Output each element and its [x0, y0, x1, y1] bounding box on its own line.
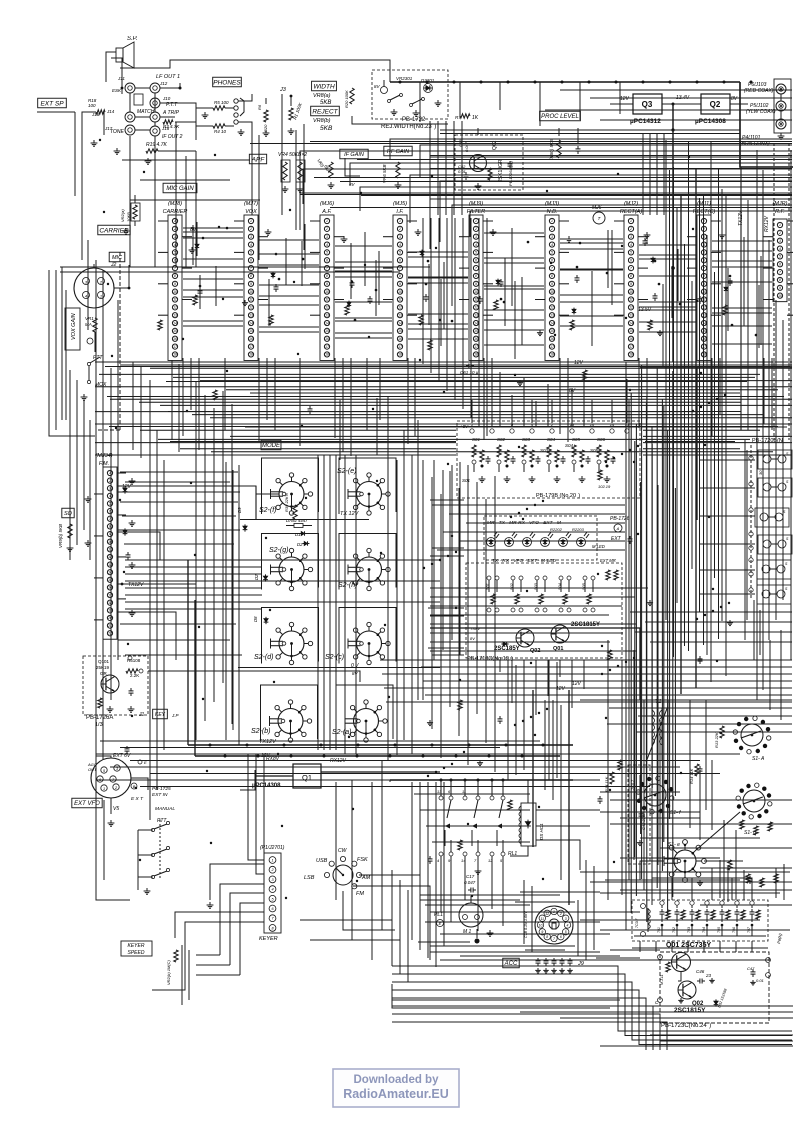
- ground: [202, 112, 209, 118]
- wire: [122, 159, 250, 161]
- wire: [175, 121, 196, 123]
- wire: [140, 179, 230, 181]
- wire: [417, 420, 419, 700]
- wire: [700, 867, 792, 869]
- node: [426, 81, 429, 84]
- filter cap T01: [657, 901, 670, 936]
- wire: [95, 442, 456, 444]
- wire: [357, 159, 792, 161]
- wire: [552, 700, 554, 800]
- svg-text:S2-(e): S2-(e): [337, 468, 356, 475]
- node: [182, 338, 184, 340]
- wire: [430, 218, 432, 373]
- wire: [88, 366, 90, 380]
- svg-text:2SC1815Y: 2SC1815Y: [571, 622, 600, 628]
- wire: [696, 812, 740, 850]
- node: [209, 744, 212, 747]
- rotary switch S2-(c): [348, 622, 390, 664]
- node: [384, 624, 386, 626]
- wire: [259, 331, 319, 333]
- wire: [605, 879, 740, 881]
- svg-text:18: 18: [629, 353, 633, 357]
- svg-text:VR6 5KB: VR6 5KB: [382, 164, 387, 183]
- wire: [442, 470, 444, 650]
- wire: [183, 227, 243, 229]
- svg-text:10: 10: [249, 290, 253, 294]
- wire: [700, 593, 755, 595]
- wire: [359, 875, 420, 950]
- wire: [433, 460, 435, 660]
- wire: [591, 271, 593, 346]
- node: [281, 825, 283, 827]
- svg-text:0 V: 0 V: [351, 663, 359, 669]
- ground: [427, 720, 433, 726]
- svg-text:VR8(a): VR8(a): [313, 93, 331, 99]
- wire: [258, 236, 268, 238]
- wire: [181, 945, 183, 1005]
- svg-text:13: 13: [702, 313, 706, 317]
- wire: [712, 266, 772, 268]
- wire: [585, 860, 587, 960]
- node: [425, 283, 428, 286]
- coax P5/J102: [776, 101, 786, 111]
- resistor: [774, 874, 778, 883]
- node: [750, 81, 753, 84]
- svg-text:J17: J17: [104, 126, 113, 131]
- wire: [210, 864, 264, 900]
- wire: [556, 662, 558, 778]
- capacitor: [536, 958, 541, 966]
- node: [431, 744, 434, 747]
- wire: [423, 680, 792, 682]
- wire: [96, 753, 740, 755]
- wire: [391, 870, 393, 966]
- connector MJ6: [592, 205, 605, 224]
- wire: [140, 786, 650, 788]
- wire: [399, 880, 401, 974]
- svg-text:7: 7: [630, 266, 632, 270]
- resistor: [458, 840, 462, 850]
- wire: [175, 122, 177, 267]
- wire: [762, 170, 764, 690]
- pot VR2: [131, 203, 140, 221]
- wire: [634, 935, 766, 937]
- wire thick: [255, 486, 257, 519]
- junction: [749, 558, 753, 562]
- svg-text:(MJ2): (MJ2): [624, 201, 638, 207]
- wire: [392, 990, 792, 1045]
- svg-text:7: 7: [779, 270, 781, 274]
- wire: [82, 112, 96, 190]
- wire: [580, 699, 792, 701]
- node: [680, 772, 682, 774]
- resistor: [458, 700, 462, 710]
- wire: [460, 955, 620, 957]
- node: [293, 281, 295, 283]
- filter cap T04: [702, 901, 715, 936]
- wire: [639, 244, 696, 246]
- wire: [245, 426, 787, 428]
- node: [621, 453, 623, 455]
- wire: [478, 218, 480, 427]
- ground: [475, 183, 482, 189]
- svg-text:PB-1722: PB-1722: [402, 117, 426, 123]
- wire: [69, 516, 71, 520]
- wire: [680, 194, 682, 694]
- svg-text:S02: S02: [510, 582, 514, 590]
- wire: [607, 247, 609, 288]
- wire: [183, 237, 243, 239]
- wire: [560, 301, 623, 303]
- connector strip (MJ7) VOX: [244, 215, 258, 360]
- phone jack J3: [234, 98, 244, 124]
- svg-text:13: 13: [173, 313, 177, 317]
- connector MIC J2: [74, 264, 114, 308]
- resistor: [488, 168, 492, 180]
- wire: [255, 775, 293, 777]
- svg-text:F.M.: F.M.: [99, 461, 109, 467]
- wire: [719, 358, 721, 414]
- wire: [484, 344, 544, 346]
- svg-text:4: 4: [250, 243, 252, 247]
- wire: [350, 163, 792, 185]
- svg-text:16: 16: [629, 337, 633, 341]
- svg-text:14: 14: [249, 321, 253, 325]
- wire: [134, 195, 136, 203]
- wire: [454, 218, 456, 400]
- wire: [390, 139, 792, 159]
- svg-text:8V: 8V: [470, 636, 475, 641]
- jack J13 ATRIP: [150, 110, 180, 122]
- wire: [100, 740, 540, 742]
- pot VR5: [329, 162, 333, 178]
- wire: [621, 660, 623, 895]
- coil 7C07: [631, 775, 640, 800]
- capacitor: [129, 688, 134, 696]
- wire: [600, 929, 790, 931]
- capacitor: [544, 958, 549, 966]
- svg-text:S01: S01: [486, 583, 490, 590]
- node: [688, 156, 690, 158]
- capacitor: [308, 406, 313, 414]
- label PHONES: [213, 77, 242, 87]
- capacitor: [653, 293, 658, 301]
- switch S04: [547, 437, 566, 482]
- wire: [780, 630, 782, 720]
- wire: [669, 447, 671, 819]
- wire: [499, 660, 501, 672]
- node: [708, 516, 710, 518]
- pot VR4b: [296, 160, 305, 182]
- wire: [632, 947, 768, 949]
- wire: [117, 612, 176, 660]
- node: [302, 258, 305, 261]
- node: [637, 533, 639, 535]
- node: [431, 563, 433, 565]
- wire: [700, 515, 755, 517]
- node: [269, 609, 271, 611]
- wire: [355, 455, 357, 754]
- switch: [151, 821, 169, 831]
- transistor Q02 2SC1815Y: [678, 981, 696, 999]
- svg-text:USB: USB: [316, 858, 328, 864]
- wire: [640, 482, 642, 834]
- wire dashed: [96, 429, 120, 431]
- switch routing box S2-(e): [339, 458, 396, 514]
- wire: [224, 358, 226, 430]
- wire: [430, 951, 600, 953]
- node: [214, 154, 216, 156]
- svg-text:17: 17: [325, 345, 329, 349]
- wire: [663, 406, 665, 842]
- wire: [638, 267, 648, 269]
- wire: [560, 294, 623, 296]
- node: [621, 245, 623, 247]
- wire: [99, 373, 760, 375]
- svg-text:10: 10: [173, 290, 177, 294]
- svg-text:MANUAL: MANUAL: [155, 806, 175, 812]
- wire: [430, 650, 637, 652]
- jack J18: [150, 126, 170, 136]
- wire: [751, 941, 753, 952]
- node: [731, 324, 734, 327]
- svg-text:10: 10: [550, 290, 554, 294]
- switch S05: [572, 437, 591, 482]
- ground: [108, 820, 115, 826]
- capacitor 0.047: [643, 234, 650, 246]
- svg-text:2: 2: [249, 227, 252, 231]
- node: [534, 81, 537, 84]
- ground: [697, 880, 703, 886]
- wire: [300, 151, 792, 197]
- svg-text:12: 12: [550, 306, 554, 310]
- node: [605, 461, 607, 463]
- wire: [577, 900, 579, 956]
- svg-text:PTT: PTT: [157, 818, 167, 824]
- svg-text:8: 8: [399, 274, 401, 278]
- node: [447, 463, 449, 465]
- node: [679, 303, 682, 306]
- wire: [610, 823, 792, 825]
- wire: [711, 760, 713, 830]
- pot VR4a: [281, 160, 290, 182]
- resistor: [570, 320, 574, 330]
- diode D2301: [421, 78, 435, 93]
- wire: [451, 465, 453, 640]
- wire: [700, 543, 755, 545]
- wire: [196, 954, 220, 956]
- wire: [435, 782, 437, 967]
- ground: [657, 330, 663, 336]
- wire: [150, 367, 792, 369]
- wire: [301, 241, 303, 286]
- wire: [535, 660, 537, 715]
- svg-text:17: 17: [550, 345, 554, 349]
- switch PTT: [87, 355, 103, 366]
- node: [708, 402, 710, 404]
- svg-text:4: 4: [779, 247, 781, 251]
- wire: [263, 754, 265, 888]
- svg-text:1: 1: [250, 219, 252, 223]
- wire: [152, 922, 264, 990]
- filter cap T02: [672, 901, 685, 936]
- svg-text:2: 2: [474, 227, 477, 231]
- svg-text:12: 12: [325, 306, 329, 310]
- wire: [171, 360, 173, 440]
- capacitor C42 270P: [639, 811, 647, 830]
- wire: [266, 358, 268, 420]
- node: [542, 744, 545, 747]
- pin: [658, 998, 663, 1003]
- wire: [620, 889, 792, 891]
- transistor Q01: [551, 625, 569, 643]
- wire: [440, 780, 442, 796]
- wire: [430, 155, 792, 157]
- jack J12: [150, 81, 168, 93]
- wire: [383, 236, 393, 238]
- pin: [550, 429, 554, 433]
- wire: [674, 488, 676, 796]
- wire: [300, 919, 392, 921]
- svg-text:11: 11: [629, 298, 633, 302]
- svg-text:4: 4: [551, 243, 553, 247]
- svg-text:5KB: 5KB: [320, 100, 331, 106]
- wire: [163, 460, 165, 750]
- node: [475, 939, 480, 944]
- wire: [425, 694, 792, 696]
- wire: [499, 372, 501, 426]
- switch routing box S2-(f): [262, 458, 319, 514]
- wire: [502, 780, 504, 796]
- svg-text:R19 4.7K: R19 4.7K: [146, 142, 168, 148]
- node: [394, 744, 397, 747]
- node: [617, 173, 619, 175]
- wire: [699, 198, 701, 612]
- wire: [420, 894, 560, 896]
- switch routing box S2-(g): [262, 534, 319, 590]
- ground: [207, 902, 214, 908]
- wire: [117, 472, 126, 474]
- node: [111, 355, 113, 357]
- svg-text:11: 11: [462, 789, 466, 794]
- node: [443, 767, 445, 769]
- node: [716, 660, 718, 662]
- pin: [139, 669, 143, 673]
- wire: [559, 283, 569, 285]
- wire: [428, 647, 464, 649]
- pin: [530, 429, 534, 433]
- svg-text:I.F.: I.F.: [396, 209, 403, 215]
- svg-text:5: 5: [551, 251, 553, 255]
- wire: [525, 949, 565, 951]
- wire: [196, 107, 213, 109]
- svg-text:J3: J3: [279, 87, 287, 93]
- svg-text:S03: S03: [534, 582, 538, 590]
- rotary switch S2-(b): [270, 700, 312, 742]
- wire: [114, 265, 129, 288]
- svg-text:14: 14: [629, 321, 633, 325]
- wire: [590, 97, 792, 99]
- ground: [85, 540, 92, 546]
- node: [633, 461, 635, 463]
- wire: [414, 358, 416, 436]
- crystal filter: [755, 508, 789, 527]
- svg-text:Q2: Q2: [710, 100, 721, 109]
- resistor: [666, 962, 670, 972]
- wire: [178, 364, 180, 452]
- resistor: [508, 800, 512, 810]
- svg-text:5: 5: [630, 251, 632, 255]
- diode: [501, 642, 508, 647]
- wire: [579, 82, 581, 120]
- svg-text:11: 11: [398, 298, 402, 302]
- node: [447, 555, 449, 557]
- wire: [662, 284, 664, 366]
- svg-text:REJ.WIDTH(No.23 ): REJ.WIDTH(No.23 ): [381, 124, 436, 130]
- wire: [392, 1022, 667, 1050]
- wire: [635, 424, 637, 896]
- wire: [470, 218, 472, 418]
- resistor R39 22K: [284, 492, 297, 519]
- wire: [593, 866, 595, 950]
- wire: [299, 358, 301, 446]
- diode D2: [297, 541, 309, 547]
- wire: [600, 791, 680, 793]
- wire: [248, 754, 264, 860]
- wire: [258, 267, 268, 269]
- wire: [760, 256, 762, 345]
- svg-text:6: 6: [779, 262, 781, 266]
- label MIC GAIN: [163, 183, 197, 193]
- svg-text:13: 13: [629, 313, 633, 317]
- wire: [81, 190, 83, 260]
- wire: [652, 878, 685, 900]
- node: [526, 590, 528, 592]
- wire: [422, 218, 424, 364]
- wire: [211, 451, 773, 453]
- wire: [303, 169, 792, 204]
- wire: [511, 395, 513, 426]
- wire: [182, 299, 192, 301]
- node: [455, 551, 457, 553]
- wire: [763, 358, 765, 424]
- node: [510, 516, 512, 518]
- relay contacts RL1: [437, 789, 505, 863]
- node: [704, 444, 706, 446]
- wire: [117, 532, 160, 560]
- wire: [646, 358, 648, 420]
- svg-text:1: 1: [103, 787, 105, 791]
- svg-text:10: 10: [702, 290, 706, 294]
- capacitor: [498, 716, 503, 724]
- wire: [480, 1005, 793, 1007]
- svg-text:1: 1: [475, 219, 477, 223]
- wire: [620, 817, 700, 819]
- wire: [429, 121, 431, 215]
- node: [712, 610, 714, 612]
- svg-text:(MJ9): (MJ9): [469, 201, 483, 207]
- wire: [160, 116, 175, 118]
- wire: [639, 258, 696, 260]
- wire: [756, 150, 758, 700]
- wire: [129, 136, 131, 267]
- switch S01: [486, 576, 499, 612]
- capacitor: [552, 958, 557, 966]
- wire: [639, 309, 696, 311]
- wire: [383, 267, 393, 269]
- wire: [567, 358, 569, 442]
- wire: [775, 868, 777, 898]
